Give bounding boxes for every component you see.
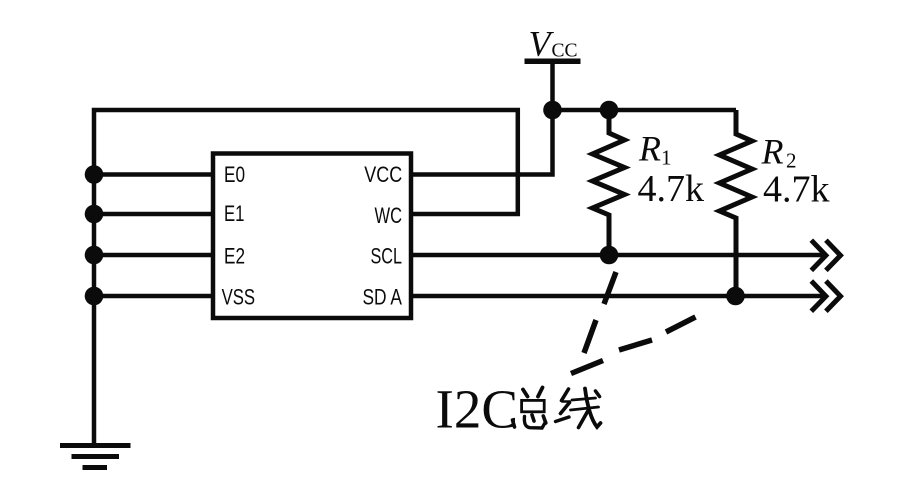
- wire Vcc stem: [550, 61, 555, 110]
- wire top bus to R2: [553, 108, 737, 113]
- wire VSS pin: [94, 294, 213, 299]
- node: junction dot SCL/R1: [600, 246, 619, 265]
- svg-text:R: R: [761, 132, 784, 172]
- svg-text:E2: E2: [224, 244, 245, 269]
- arrow SDA double chevron: [811, 281, 840, 311]
- node: junction dot Vcc: [543, 101, 562, 120]
- resistor R2: [720, 110, 753, 296]
- svg-text:R: R: [638, 129, 661, 169]
- node: junction dot E2: [85, 246, 104, 265]
- node: junction dot R1 top: [600, 101, 619, 120]
- ground: [60, 446, 131, 468]
- svg-text:VSS: VSS: [222, 284, 256, 309]
- wire SDA line: [411, 294, 826, 299]
- wire: left rail + top wire + WC vertical: [94, 110, 518, 446]
- node: junction dot VSS: [85, 287, 104, 306]
- wire E2 pin: [94, 253, 213, 258]
- node: junction dot E0: [85, 165, 104, 184]
- svg-text:E0: E0: [224, 162, 245, 187]
- label hanzi XIAN (line) hand-drawn: [556, 389, 601, 428]
- resistor R1: [593, 110, 625, 255]
- svg-text:SCL: SCL: [371, 244, 403, 269]
- svg-text:I2C: I2C: [436, 378, 519, 439]
- wire SCL line: [411, 253, 826, 258]
- svg-text:4.7k: 4.7k: [763, 169, 830, 211]
- wire E1 pin: [94, 212, 213, 217]
- svg-text:1: 1: [661, 146, 672, 170]
- label hanzi ZONG (total) hand-drawn: [513, 388, 546, 429]
- wire VCC pin to Vcc node: [411, 110, 553, 175]
- svg-text:SD A: SD A: [363, 284, 403, 309]
- svg-text:CC: CC: [552, 41, 578, 62]
- IC U1 body: [213, 154, 411, 319]
- svg-text:4.7k: 4.7k: [638, 168, 705, 210]
- power bar Vcc: [525, 59, 581, 65]
- dashed leader line 1 (from SCL node): [584, 272, 616, 353]
- svg-text:VCC: VCC: [364, 162, 402, 187]
- node: junction dot SDA/R2: [726, 287, 745, 306]
- node: junction dot E1: [85, 205, 104, 224]
- wire E0 pin: [94, 172, 213, 177]
- arrow SCL double chevron: [811, 240, 840, 270]
- svg-text:E1: E1: [224, 201, 245, 226]
- svg-text:WC: WC: [375, 203, 403, 228]
- dashed leader line 2 (from SDA node): [571, 317, 696, 374]
